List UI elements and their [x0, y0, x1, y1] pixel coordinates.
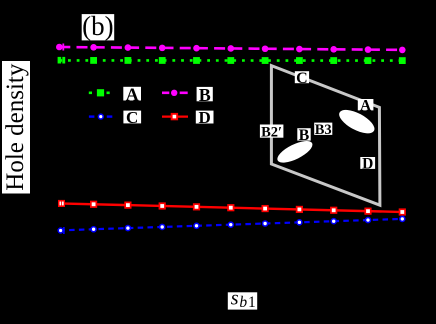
svg-text:A: A — [126, 85, 139, 105]
svg-text:C: C — [296, 70, 308, 87]
svg-text:B2′: B2′ — [261, 124, 282, 140]
svg-text:B3: B3 — [315, 122, 332, 138]
svg-text:D: D — [362, 156, 373, 173]
svg-text:D: D — [199, 108, 211, 127]
svg-text:(b): (b) — [82, 11, 113, 41]
svg-text:Hole density: Hole density — [2, 63, 29, 191]
svg-text:B: B — [199, 85, 211, 105]
svg-text:C: C — [126, 108, 138, 127]
svg-text:B: B — [299, 127, 310, 144]
svg-text:A: A — [360, 97, 372, 114]
